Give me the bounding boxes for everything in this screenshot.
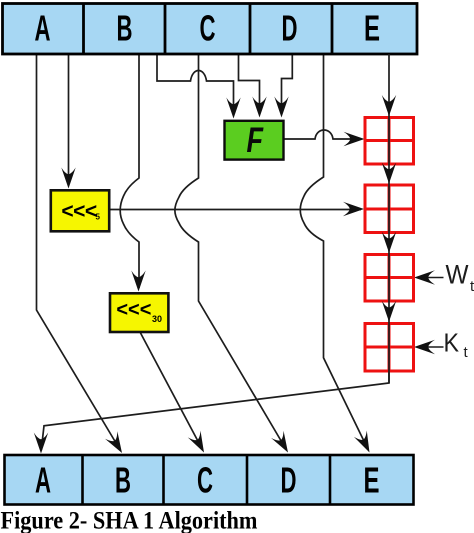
svg-text:E: E xyxy=(364,460,380,501)
svg-text:30: 30 xyxy=(152,314,162,324)
wire D-stub: from box D down, left, down into F xyxy=(274,54,292,118)
svg-text:B: B xyxy=(117,8,133,49)
svg-text:D: D xyxy=(282,8,298,49)
svg-text:<<<: <<< xyxy=(61,200,97,223)
wire B-stub: from box B right along rail (hop over C wire) down into F xyxy=(157,54,241,119)
adder 1 (mod 2^32 add) xyxy=(364,116,416,166)
adder 4 xyxy=(364,322,416,373)
adder 3 xyxy=(364,253,416,303)
svg-text:F: F xyxy=(247,121,265,160)
svg-text:5: 5 xyxy=(96,213,101,222)
wire A-long: from box A down then diagonal to bottom B xyxy=(37,54,129,457)
svg-text:<<<: <<< xyxy=(116,299,151,321)
svg-text:t: t xyxy=(470,278,474,295)
svg-text:D: D xyxy=(281,460,297,501)
wire A-stub: from box A down into rotate-5 box xyxy=(61,54,75,189)
svg-text:C: C xyxy=(200,8,216,49)
wire adder-output: from below adder 4 sloping left then down into bottom A xyxy=(34,372,389,454)
wire C-long: from box C down (arc hop over shift5 line) then diagonal to bottom D xyxy=(175,54,294,456)
bottom register row boxes A B C D E xyxy=(5,455,414,505)
rotate-left-5 box xyxy=(51,190,109,231)
wire E: from box E down through adder chain xyxy=(382,54,396,383)
label Wt xyxy=(446,260,474,296)
wire shift5-output: from rotate-5 box right into adder 2 xyxy=(109,202,364,216)
rotate-left-30 box xyxy=(110,293,168,332)
svg-text:A: A xyxy=(35,8,51,49)
svg-text:K: K xyxy=(444,328,460,358)
svg-text:Figure 2- SHA 1 Algorithm: Figure 2- SHA 1 Algorithm xyxy=(1,508,258,533)
svg-text:B: B xyxy=(115,460,131,501)
svg-text:C: C xyxy=(197,460,213,501)
wire Kt input: arrow from Kt label into adder 4 xyxy=(414,340,444,354)
wire Wt input: arrow from Wt label into adder 3 xyxy=(414,270,444,284)
label Kt xyxy=(444,328,469,362)
svg-text:A: A xyxy=(35,460,51,501)
wire C-stub: from box C down, right, down into F xyxy=(239,54,267,118)
svg-text:W: W xyxy=(446,260,469,290)
svg-text:E: E xyxy=(364,8,380,49)
wire F-output: from F box right (hop over D wire) into adder 1 xyxy=(284,130,365,146)
function box F xyxy=(225,121,284,160)
adder 2 xyxy=(364,184,416,235)
wire B-long: from box B down (arc hop over shift5 line) into rotate-30 box xyxy=(120,54,146,292)
top register row boxes A B C D E xyxy=(3,4,418,55)
wire shift30-output: diagonal from rotate-30 box to bottom C xyxy=(140,332,210,456)
wire D-long: from box D down (arc hop over shift5 line) then diagonal to bottom E xyxy=(300,54,376,456)
